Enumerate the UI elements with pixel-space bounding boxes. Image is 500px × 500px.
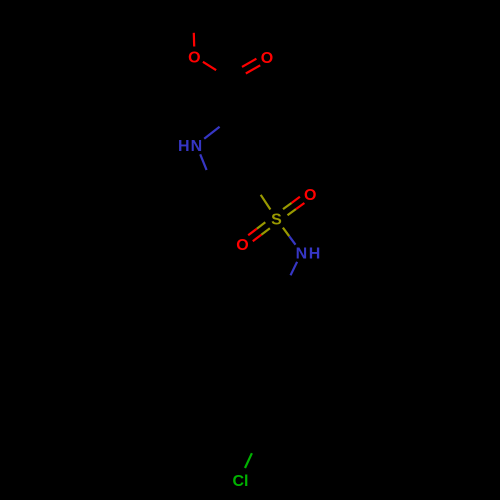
svg-text:O: O [304, 187, 316, 204]
bond CC-C2 [230, 79, 236, 115]
bond C1p-C2p [252, 355, 296, 359]
bond O1-CC [203, 62, 216, 70]
bond N1-C5 [200, 154, 206, 170]
bond C3-C4 [251, 138, 270, 181]
bond S-O3 [288, 209, 296, 215]
bond CH3-O1 [192, 19, 195, 33]
bond C4-C5 [212, 176, 250, 182]
svg-text:H: H [309, 246, 321, 263]
bond C2-N1 [220, 115, 235, 127]
bond C6-C7 [284, 289, 292, 333]
bond CC-O2 [231, 74, 245, 82]
bond C2-C3 [233, 118, 268, 141]
svg-text:N: N [296, 246, 308, 263]
bond C3p-C4p [231, 405, 256, 441]
svg-text:O: O [236, 237, 248, 254]
bond S-N2 [283, 228, 289, 237]
svg-text:N: N [191, 138, 203, 155]
svg-text:S: S [271, 212, 282, 229]
svg-text:O: O [188, 49, 200, 66]
svg-text:O: O [261, 50, 273, 67]
bond C4-S [251, 180, 261, 195]
bond C7-C1p [292, 333, 297, 359]
bond N2-C6 [291, 262, 298, 276]
bond C4p-C5p [259, 435, 303, 439]
bond C5p-C6p [306, 396, 325, 436]
bond C4p-Cl [252, 438, 259, 453]
svg-text:H: H [178, 138, 190, 155]
bond S-O4 [257, 222, 266, 228]
bond C2p-C3p [234, 363, 253, 403]
bond C6p-C1p [296, 359, 321, 395]
svg-text:Cl: Cl [233, 473, 249, 490]
